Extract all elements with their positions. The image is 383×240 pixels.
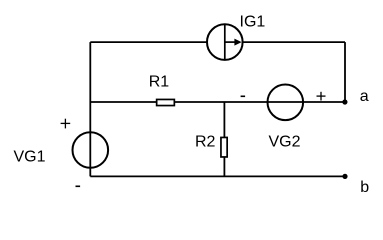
current source IG1 [207,24,243,60]
svg-text:VG2: VG2 [269,134,301,151]
svg-text:a: a [360,88,369,105]
wire left vertical [89,42,91,176]
voltage source VG2 [268,85,304,121]
polarity plus VG2 [317,92,326,101]
wire middle net [90,101,345,103]
polarity minus VG2 [241,95,246,97]
svg-text:b: b [360,179,369,196]
node b dot [342,174,347,179]
wire right vertical to node a [344,42,346,102]
wire bottom net [90,175,345,177]
svg-text:R2: R2 [195,134,216,151]
resistor R1 [157,99,175,105]
resistor R2 [221,137,227,157]
svg-text:IG1: IG1 [240,14,266,31]
svg-text:VG1: VG1 [14,149,46,166]
polarity plus VG1 [61,119,71,129]
polarity minus VG1 [76,185,81,187]
wire top net [90,41,345,43]
node a dot [342,99,347,104]
svg-text:R1: R1 [149,74,170,91]
wire R2 branch [223,102,225,176]
voltage source VG1 [73,132,109,168]
